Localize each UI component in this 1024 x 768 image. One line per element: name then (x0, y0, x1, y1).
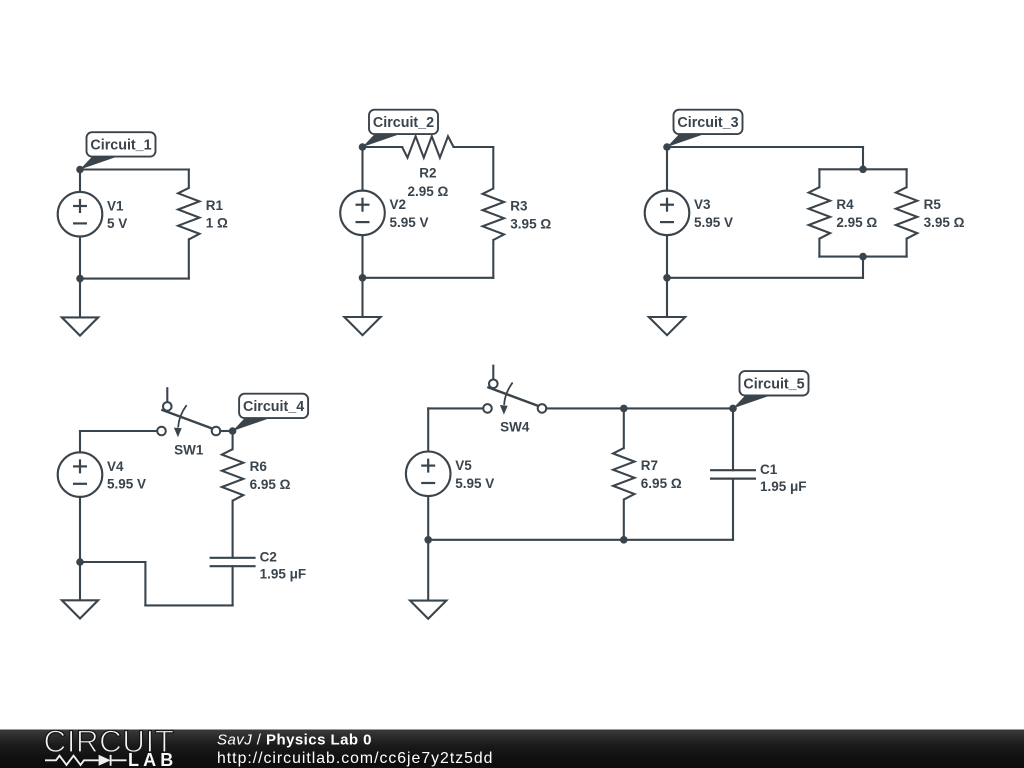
label Circuit_3 (667, 110, 743, 147)
wire V5 top lead (427, 408, 429, 451)
wire drop from parallel pair (862, 257, 864, 278)
svg-text:5.95 V: 5.95 V (694, 215, 733, 230)
svg-text:6.95 Ω: 6.95 Ω (250, 477, 291, 492)
svg-text:SavJ / Physics Lab 0: SavJ / Physics Lab 0 (217, 732, 372, 749)
svg-text:R5: R5 (924, 197, 942, 212)
node Circuit_1 top junction (76, 166, 84, 174)
voltage source V5 (406, 452, 494, 497)
wire C2 bottom lead (232, 566, 234, 605)
svg-text:V5: V5 (455, 458, 472, 473)
wire top-right Circuit_2 (454, 146, 494, 148)
node R7 bottom junction (620, 536, 628, 544)
resistor R3 (483, 189, 552, 241)
voltage source V1 (58, 192, 128, 237)
capacitor C1 (710, 462, 807, 494)
ground Circuit_3 (649, 278, 685, 335)
svg-text:R3: R3 (510, 198, 528, 213)
svg-text:R7: R7 (641, 458, 658, 473)
svg-text:5.95 V: 5.95 V (455, 476, 494, 491)
wire R4 top lead (818, 169, 820, 187)
svg-text:LAB: LAB (128, 750, 177, 768)
ground Circuit_4 (62, 562, 98, 619)
ground Circuit_2 (344, 278, 380, 335)
node Circuit_2 bottom junction (359, 274, 367, 282)
svg-text:R4: R4 (836, 197, 854, 212)
node Circuit_4 junction (229, 427, 237, 435)
node Circuit_5 ground junction (424, 536, 432, 544)
wire R7 top lead (623, 408, 625, 448)
resistor R6 (222, 449, 291, 501)
svg-text:Circuit_3: Circuit_3 (677, 115, 738, 131)
voltage source V2 (340, 191, 428, 236)
wire R5 bottom lead (906, 239, 908, 257)
svg-text:V3: V3 (694, 197, 711, 212)
wire R6 to C2 (232, 501, 234, 558)
capacitor C2 (210, 550, 307, 582)
wire top-left Circuit_2 (363, 146, 403, 148)
svg-text:5.95 V: 5.95 V (390, 215, 429, 230)
wire V3 bottom lead (666, 235, 668, 278)
wire V4 top lead (79, 431, 81, 452)
wire parallel top bar (819, 168, 906, 170)
wire C1 top lead (732, 408, 734, 470)
wire bottom Circuit_2 (363, 277, 494, 279)
wire V5 bottom lead (427, 496, 429, 540)
label Circuit_1 (80, 132, 156, 169)
wire bottom rail Circuit_4 (145, 604, 232, 606)
wire R3 top lead (492, 147, 494, 189)
svg-text:3.95 Ω: 3.95 Ω (924, 215, 965, 230)
svg-text:1 Ω: 1 Ω (206, 216, 228, 231)
svg-text:C1: C1 (760, 462, 778, 477)
wire C1 bottom lead (732, 479, 734, 540)
node Circuit_2 top junction (359, 143, 367, 151)
node R7 top junction (620, 405, 628, 413)
wire riser Circuit_4 (144, 562, 146, 605)
svg-text:R6: R6 (250, 459, 268, 474)
wire R1 top lead (188, 170, 190, 188)
wire SW1 to node (220, 430, 232, 432)
svg-text:C2: C2 (260, 550, 277, 565)
resistor R1 (178, 188, 228, 240)
wire bottom Circuit_3 (667, 277, 863, 279)
node Circuit_1 bottom junction (76, 275, 84, 283)
wire R5 top lead (906, 169, 908, 187)
wire R3 bottom lead (492, 240, 494, 278)
wire V4 to SW1 (80, 430, 157, 432)
wire R7 node to C1 node (624, 407, 733, 409)
voltage source V4 (58, 452, 146, 497)
resistor R2 (402, 136, 454, 199)
resistor R5 (896, 187, 965, 239)
svg-text:V1: V1 (107, 198, 124, 213)
svg-text:R1: R1 (206, 198, 224, 213)
svg-text:R2: R2 (419, 166, 436, 181)
footer bar (0, 730, 1024, 768)
wire bottom Circuit_5 (428, 539, 733, 541)
wire to V4 negative (80, 561, 145, 563)
node C1 top junction (729, 405, 737, 413)
wire R4 bottom lead (818, 239, 820, 257)
ground Circuit_1 (62, 279, 98, 336)
svg-text:5 V: 5 V (107, 216, 127, 231)
switch SW1 (157, 387, 220, 457)
svg-text:V4: V4 (107, 459, 124, 474)
node parallel top junction (859, 166, 867, 174)
node Circuit_3 bottom junction (663, 274, 671, 282)
wire V4 bottom lead (79, 497, 81, 562)
svg-text:2.95 Ω: 2.95 Ω (836, 215, 877, 230)
wire V2 bottom lead (361, 235, 363, 278)
resistor R4 (809, 187, 878, 239)
label Circuit_5 (733, 371, 809, 408)
wire drop to parallel pair (862, 147, 864, 169)
CircuitLab logo resistor-diode glyph (45, 755, 127, 766)
wire V1 top lead (79, 170, 81, 192)
svg-text:Circuit_1: Circuit_1 (90, 138, 151, 154)
resistor R7 (613, 448, 682, 500)
svg-text:Circuit_5: Circuit_5 (743, 377, 804, 393)
ground Circuit_5 (410, 540, 446, 619)
svg-text:3.95 Ω: 3.95 Ω (510, 216, 551, 231)
wire V2 top lead (361, 147, 363, 191)
wire R7 bottom lead (623, 500, 625, 540)
svg-text:http://circuitlab.com/cc6je7y2: http://circuitlab.com/cc6je7y2tz5dd (217, 750, 493, 767)
node Circuit_3 top junction (663, 143, 671, 151)
svg-text:Circuit_4: Circuit_4 (243, 399, 304, 415)
svg-text:SW1: SW1 (174, 442, 204, 457)
wire R1 bottom lead (188, 239, 190, 278)
label Circuit_4 (233, 394, 309, 431)
svg-text:1.95 μF: 1.95 μF (260, 567, 307, 582)
svg-text:2.95 Ω: 2.95 Ω (407, 184, 448, 199)
wire SW4 to R7 node (546, 407, 624, 409)
svg-text:5.95 V: 5.95 V (107, 477, 146, 492)
wire V1 bottom lead (79, 237, 81, 279)
wire V3 top lead (666, 147, 668, 191)
svg-text:1.95 μF: 1.95 μF (760, 479, 807, 494)
svg-text:V2: V2 (390, 197, 407, 212)
wire bottom Circuit_1 (80, 278, 189, 280)
node parallel bottom junction (859, 253, 867, 261)
node Circuit_4 ground junction (76, 558, 84, 566)
wire R6 top lead (232, 431, 234, 449)
wire top Circuit_1 (80, 168, 189, 170)
svg-text:6.95 Ω: 6.95 Ω (641, 476, 682, 491)
wire parallel bottom bar (819, 256, 906, 258)
label Circuit_2 (363, 110, 439, 147)
switch SW4 (483, 365, 546, 435)
wire V5 to SW4 (428, 407, 483, 409)
svg-text:SW4: SW4 (500, 420, 530, 435)
wire top Circuit_3 (667, 146, 863, 148)
voltage source V3 (645, 191, 733, 236)
svg-text:Circuit_2: Circuit_2 (373, 115, 434, 131)
